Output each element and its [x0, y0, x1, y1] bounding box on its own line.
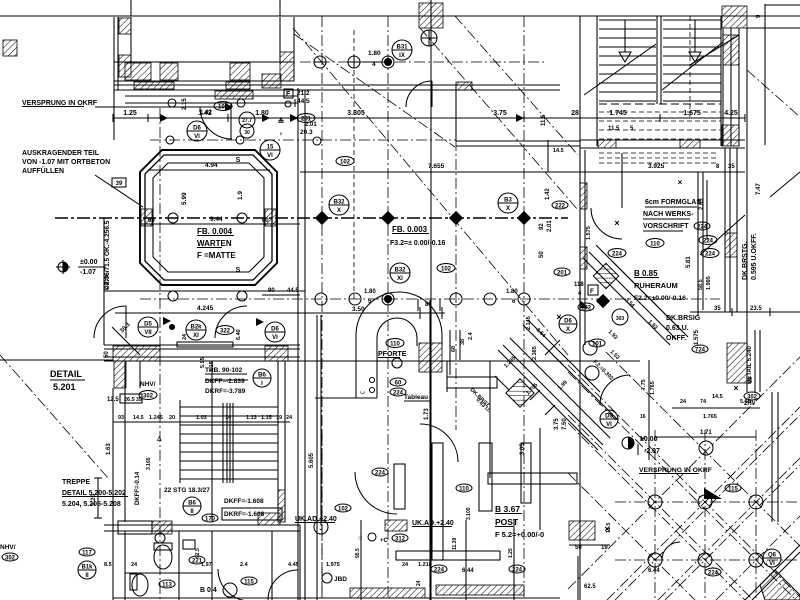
svg-text:1.218: 1.218	[418, 562, 432, 568]
svg-text:TREPPE: TREPPE	[62, 479, 90, 486]
tag Q6 VI	[763, 549, 781, 567]
treppe spine	[222, 403, 224, 483]
svg-text:UK.AD.+2.40: UK.AD.+2.40	[412, 520, 454, 527]
tag 224 oval c	[608, 249, 626, 258]
vertical line x305	[304, 90, 306, 600]
vertical x447	[446, 361, 448, 392]
svg-text:302: 302	[747, 394, 758, 400]
svg-text:35: 35	[714, 306, 721, 312]
door arc top corridor 1	[200, 107, 232, 139]
axis y218 markers	[315, 211, 329, 225]
svg-text:224: 224	[393, 390, 404, 396]
svg-text:B31: B31	[396, 45, 408, 51]
svg-text:DK.BRSTG.: DK.BRSTG.	[742, 241, 749, 280]
vertical axis x756 bottom right	[755, 430, 757, 600]
oval 201 left	[554, 268, 570, 276]
circle J bottom	[314, 520, 328, 534]
svg-text:110: 110	[459, 486, 469, 492]
vertical line x298	[297, 88, 299, 600]
bottom right bars	[521, 443, 531, 503]
svg-text:VI: VI	[194, 134, 200, 140]
svg-text:2.15: 2.15	[182, 98, 188, 110]
svg-text:1.42: 1.42	[545, 188, 551, 200]
arrow marker y118	[160, 114, 168, 122]
tableau bar	[447, 377, 497, 388]
stair right wall	[722, 28, 724, 146]
svg-text:118: 118	[574, 282, 584, 288]
svg-text:VI: VI	[769, 561, 775, 567]
tag V224	[694, 222, 710, 230]
svg-text:44.5: 44.5	[297, 98, 310, 105]
svg-text:3.165: 3.165	[146, 457, 152, 470]
svg-text:6.44: 6.44	[648, 568, 660, 574]
tag 110 oval b	[646, 239, 664, 248]
svg-text:5.201: 5.201	[53, 382, 76, 392]
tag 302 NHV right	[744, 392, 760, 400]
vertical axis x524	[523, 16, 525, 600]
treppe top wall	[104, 344, 300, 346]
svg-text:B3: B3	[504, 198, 512, 204]
svg-text:38: 38	[460, 339, 466, 345]
axis y140	[150, 139, 456, 141]
svg-text:7.47: 7.47	[756, 183, 762, 195]
svg-text:5.605: 5.605	[309, 452, 315, 468]
svg-text:3.75: 3.75	[493, 110, 507, 117]
horizontal axis y62	[300, 61, 545, 63]
stair arrow triangle 1	[619, 52, 631, 62]
svg-text:VI: VI	[606, 422, 612, 428]
svg-text:6cm FORMGLAS: 6cm FORMGLAS	[645, 199, 701, 206]
svg-text:VORSCHRIFT: VORSCHRIFT	[643, 223, 689, 230]
svg-text:1.63: 1.63	[106, 443, 112, 455]
svg-text:20: 20	[169, 415, 175, 421]
tag 102 oval center	[437, 264, 455, 273]
grid circle b	[348, 56, 360, 68]
corridor dim 4.245	[115, 312, 330, 314]
vertical axis x705 bottom right	[704, 430, 706, 600]
svg-text:50: 50	[539, 251, 545, 258]
bottom wall hatch b	[385, 520, 407, 531]
top-left room wall hatch bottom3	[230, 63, 250, 80]
diag hatch diamond 2	[593, 263, 618, 288]
svg-text:1.765: 1.765	[703, 414, 717, 420]
svg-text:62.5: 62.5	[584, 584, 596, 590]
svg-text:3.305: 3.305	[347, 110, 365, 117]
svg-text:1.42: 1.42	[200, 110, 212, 116]
svg-text:1.13: 1.13	[246, 415, 257, 421]
pforte circle glyph	[392, 358, 402, 368]
svg-text:X: X	[337, 208, 341, 214]
svg-text:102: 102	[338, 506, 349, 512]
svg-text:35: 35	[728, 164, 735, 170]
svg-text:302: 302	[5, 555, 16, 561]
lattice dims	[655, 436, 756, 438]
text F 21.2 44.5	[284, 89, 293, 98]
svg-text:60: 60	[395, 380, 402, 386]
elevation marker pm0.00 -1.07	[58, 262, 68, 272]
svg-text:AUFFÜLLEN: AUFFÜLLEN	[22, 166, 64, 175]
svg-text:110: 110	[390, 341, 400, 347]
tag B6 I	[253, 369, 271, 387]
vertical axis x388	[387, 16, 389, 600]
svg-text:±0.00: ±0.00	[80, 259, 98, 266]
diagonal axis left bottom	[0, 355, 108, 478]
tag 102 post	[335, 504, 351, 512]
vertical grid line x131 above building	[130, 0, 132, 16]
svg-text:JBD: JBD	[334, 576, 347, 583]
svg-text:1.575: 1.575	[694, 329, 700, 345]
corridor tag row	[138, 317, 158, 337]
svg-text:224: 224	[705, 251, 716, 257]
svg-text:B6: B6	[258, 373, 266, 379]
svg-text:20.3: 20.3	[300, 129, 313, 136]
vertical axis x322	[321, 16, 323, 600]
svg-text:F: F	[286, 91, 291, 98]
svg-text:224: 224	[612, 251, 623, 257]
tag 115 right	[725, 484, 741, 492]
octagon dim line y224	[140, 223, 300, 225]
svg-text:B 3.67: B 3.67	[495, 504, 520, 514]
svg-text:-1.07: -1.07	[80, 269, 96, 276]
svg-text:115: 115	[244, 579, 254, 585]
svg-text:1.765: 1.765	[650, 381, 656, 395]
tag 113 oval	[159, 580, 175, 588]
svg-text:F =MATTE: F =MATTE	[197, 251, 236, 260]
tag 115 oval	[241, 577, 257, 585]
tag 102 oval upper	[336, 157, 354, 166]
svg-text:30: 30	[244, 130, 250, 136]
pforte base	[315, 397, 377, 399]
svg-text:224: 224	[703, 238, 714, 244]
dim 120 vertical	[97, 478, 99, 518]
horizontal line y141 corridor	[456, 140, 580, 142]
svg-text:1.97: 1.97	[201, 562, 212, 568]
horizontal axis y560	[615, 559, 800, 561]
svg-text:×: ×	[733, 383, 738, 393]
boxed dim 39	[112, 178, 126, 187]
svg-text:D5: D5	[144, 322, 152, 328]
svg-text:VERSPRUNG IN OKRF: VERSPRUNG IN OKRF	[22, 100, 98, 107]
svg-text:224: 224	[375, 470, 386, 476]
svg-text:B32: B32	[394, 268, 406, 274]
top boundary line	[0, 15, 800, 17]
svg-text:WARTEN: WARTEN	[197, 239, 232, 248]
svg-text:II: II	[85, 573, 89, 579]
svg-text:22 STG 18.3/27: 22 STG 18.3/27	[164, 487, 210, 494]
pforte outer	[356, 292, 442, 398]
svg-text:303: 303	[616, 316, 625, 322]
tag 15 VI	[260, 140, 280, 160]
door arc bottom left	[218, 569, 250, 600]
tag B3 X	[498, 193, 518, 213]
svg-text:Tableau: Tableau	[404, 394, 428, 401]
vertical line x747	[746, 28, 748, 392]
svg-text:724: 724	[695, 347, 706, 353]
svg-text:24: 24	[680, 399, 687, 405]
svg-text:1.9: 1.9	[237, 191, 244, 200]
horizontal axis y299	[140, 298, 720, 300]
svg-text:14.5: 14.5	[133, 415, 144, 421]
vertical x540	[539, 428, 541, 530]
diagonal corridor horizontal base	[298, 360, 640, 362]
vertical line x430 low	[429, 300, 431, 600]
wall below stair	[580, 139, 745, 141]
svg-text:312: 312	[395, 536, 406, 542]
vertical line x580	[579, 16, 581, 600]
svg-text:1.80: 1.80	[364, 289, 376, 295]
tag 201 oval	[297, 114, 315, 123]
tag B6 II	[183, 497, 201, 515]
svg-text:2HV: 2HV	[744, 401, 756, 407]
svg-text:J: J	[319, 526, 322, 532]
svg-text:1.80: 1.80	[368, 50, 381, 57]
axis y299 circles	[315, 293, 327, 305]
svg-text:1.20: 1.20	[91, 494, 97, 506]
tag 224 d	[431, 565, 447, 573]
svg-text:14.5: 14.5	[553, 148, 564, 154]
top-left room wall hatch left	[119, 18, 131, 34]
treppe outer box	[124, 361, 126, 522]
pforte hatch block	[419, 343, 442, 372]
svg-text:2.4: 2.4	[240, 562, 249, 568]
svg-text:VERSPRUNG IN OKRF: VERSPRUNG IN OKRF	[639, 467, 712, 474]
svg-text:FB. 0.004: FB. 0.004	[197, 227, 233, 236]
svg-text:X: X	[506, 206, 510, 212]
treppe dim row y422	[113, 421, 290, 423]
svg-text:×: ×	[556, 312, 561, 322]
diag door arc	[600, 375, 630, 405]
top-left room lower band hatch	[134, 82, 174, 89]
svg-text:7.655: 7.655	[428, 163, 445, 170]
svg-text:224: 224	[708, 570, 719, 576]
tag B31 IX	[392, 40, 412, 60]
wall x580 vertical	[584, 150, 586, 345]
svg-text:201: 201	[557, 270, 568, 276]
tag 222 oval	[552, 201, 568, 209]
svg-text:VON -1.07 MIT ORTBETON: VON -1.07 MIT ORTBETON	[22, 159, 110, 166]
svg-text:14: 14	[640, 436, 646, 442]
corridor line below room	[300, 89, 560, 91]
svg-text:3.50: 3.50	[352, 306, 365, 313]
svg-text:NACH WERKS-: NACH WERKS-	[643, 211, 694, 218]
diagonal axis 2	[420, 28, 578, 210]
svg-text:322: 322	[220, 328, 231, 334]
svg-text:39: 39	[116, 181, 123, 187]
svg-text:19: 19	[276, 415, 282, 421]
svg-text:3.75: 3.75	[554, 418, 560, 430]
svg-text:74: 74	[700, 399, 707, 405]
dim row y312	[690, 311, 800, 313]
vertical axis x655 bottom right	[654, 430, 656, 600]
treppe right wall hatch	[278, 490, 285, 522]
stair arrow triangle 2	[689, 52, 701, 62]
svg-text:DKRF=-3.789: DKRF=-3.789	[205, 388, 246, 395]
svg-text:△: △	[156, 435, 162, 442]
svg-text:24: 24	[416, 580, 422, 586]
top-left room wall hatch bottom1	[125, 63, 151, 80]
svg-text:1.80: 1.80	[506, 289, 518, 295]
post column 2	[432, 443, 443, 560]
right wall lines x725-737	[724, 148, 726, 312]
diagonal axis 3	[455, 16, 578, 155]
vertical grid line x280 above building	[279, 0, 281, 16]
svg-text:FB. 0.003: FB. 0.003	[392, 225, 428, 234]
svg-text:1.71: 1.71	[700, 430, 712, 436]
svg-text:302: 302	[143, 393, 154, 399]
diag perp ticks	[530, 390, 540, 400]
svg-text:35: 35	[136, 397, 142, 403]
pforte inner	[377, 318, 417, 398]
svg-text:6.40: 6.40	[236, 329, 242, 340]
svg-text:4.94: 4.94	[205, 162, 218, 169]
svg-text:24: 24	[131, 562, 138, 568]
svg-text:1.73: 1.73	[424, 408, 430, 420]
svg-text:21.2: 21.2	[297, 90, 310, 97]
treads below stair wall	[599, 152, 718, 154]
svg-text:80: 80	[425, 302, 432, 308]
tag 110 oval c	[456, 484, 472, 492]
lattice triangle	[704, 488, 722, 499]
svg-text:S: S	[236, 267, 241, 274]
svg-text:224: 224	[434, 567, 445, 573]
svg-text:1.675: 1.675	[683, 110, 701, 117]
svg-text:○: ○	[358, 535, 362, 542]
arrow verspr	[225, 103, 233, 111]
svg-text:3.105: 3.105	[466, 507, 472, 520]
tiny arcs bottom	[662, 542, 680, 560]
svg-text:1.995: 1.995	[706, 276, 712, 290]
stair center rail	[656, 16, 658, 104]
svg-text:222: 222	[555, 203, 566, 209]
right vertical pair	[697, 172, 699, 310]
leader VERSPRUNG line	[95, 106, 230, 108]
bar mid bottom	[488, 473, 577, 484]
dim line y172	[300, 171, 745, 173]
svg-text:B 0.85: B 0.85	[634, 269, 658, 278]
corner hatch bottom right	[760, 570, 800, 600]
svg-text:19: 19	[601, 545, 608, 551]
tag D5 VI right	[600, 410, 618, 428]
svg-text:16: 16	[640, 414, 646, 420]
svg-text:7.50: 7.50	[562, 418, 568, 430]
svg-text:IX: IX	[399, 53, 405, 59]
svg-text:2.855: 2.855	[104, 274, 110, 290]
svg-text:1.745: 1.745	[609, 110, 627, 117]
svg-text:+C: +C	[380, 538, 389, 544]
svg-text:1.25: 1.25	[508, 548, 514, 558]
vertical axis x456	[455, 140, 457, 430]
svg-text:2.65: 2.65	[699, 198, 705, 210]
corridor door arc 2	[215, 306, 247, 338]
svg-text:D5: D5	[605, 414, 613, 420]
post column 3	[479, 443, 492, 511]
hatch block bottom left of lattice	[569, 521, 595, 540]
svg-text:Q6: Q6	[768, 553, 777, 559]
svg-text:VI: VI	[267, 153, 273, 159]
diag black diamond	[596, 294, 610, 308]
svg-text:24: 24	[286, 415, 293, 421]
svg-text:DKFF=-0.14: DKFF=-0.14	[135, 471, 141, 505]
svg-text:×: ×	[614, 218, 619, 228]
svg-text:115: 115	[728, 486, 738, 492]
svg-text:14.5: 14.5	[712, 394, 723, 400]
svg-text:B32: B32	[333, 200, 345, 206]
left wall bottom rooms	[112, 388, 114, 600]
door arc ruheraum	[591, 208, 622, 239]
svg-text:4.245: 4.245	[197, 305, 214, 312]
svg-text:D6: D6	[193, 126, 201, 132]
circle with cross below column	[421, 30, 437, 46]
svg-text:VII: VII	[144, 330, 152, 336]
svg-text:5.81: 5.81	[686, 256, 692, 268]
door arc bottom mid	[268, 570, 298, 600]
vertical line x765 top right	[764, 4, 766, 145]
svg-text:×: ×	[678, 178, 683, 187]
octagon axis circles	[168, 213, 178, 223]
svg-text:1.15: 1.15	[209, 361, 215, 372]
svg-text:X: X	[566, 327, 570, 333]
svg-text:201: 201	[301, 116, 312, 122]
svg-text:F 5.2=+0.00/-0: F 5.2=+0.00/-0	[495, 530, 544, 539]
post column 1	[394, 464, 405, 509]
svg-text:28: 28	[571, 110, 579, 117]
svg-text:F: F	[590, 288, 594, 295]
stair top-right outline	[596, 16, 598, 146]
svg-text:≙: ≙	[278, 117, 285, 126]
dim 9 top right	[765, 4, 800, 6]
diag lines right margin	[770, 172, 800, 197]
octagon bottom circles	[168, 291, 178, 301]
octagon room outer wall	[140, 150, 277, 285]
vertical axis x354	[353, 30, 355, 300]
svg-text:D6: D6	[271, 327, 279, 333]
grid circle a	[314, 56, 326, 68]
svg-text:2.145: 2.145	[526, 316, 532, 330]
svg-text:68: 68	[451, 346, 457, 352]
tag 303 circle	[612, 309, 628, 325]
svg-text:DKFF=-2.839: DKFF=-2.839	[205, 378, 245, 385]
left horizontal line	[0, 359, 113, 361]
interior walls bottom rooms	[178, 531, 180, 600]
svg-text:92.5: 92.5	[195, 548, 201, 558]
svg-text:50: 50	[575, 545, 582, 551]
svg-text:NHV/: NHV/	[140, 381, 156, 388]
svg-text:26.5: 26.5	[124, 397, 135, 403]
short diagonal 30.3 label	[112, 327, 140, 355]
svg-text:93: 93	[118, 415, 124, 421]
svg-text:VI: VI	[272, 335, 278, 341]
svg-text:4.45: 4.45	[288, 562, 299, 568]
door arc top corridor 2	[406, 81, 432, 107]
long counter bar	[396, 551, 500, 560]
grid dot c	[384, 58, 392, 66]
tag B32 X	[329, 195, 349, 215]
left small hatch block	[3, 40, 17, 56]
tag 102 diag	[578, 303, 594, 311]
tag V224 oval	[701, 249, 719, 258]
elevation marker bottom right	[622, 437, 634, 449]
svg-text:102: 102	[340, 159, 351, 165]
svg-text:24: 24	[402, 562, 409, 568]
treppe inner verticals	[179, 400, 181, 483]
octagon room inner wall	[153, 163, 264, 272]
svg-text:14: 14	[225, 415, 232, 421]
svg-text:AUSKRAGENDER TEIL: AUSKRAGENDER TEIL	[22, 150, 100, 157]
bottom hatch band	[350, 588, 425, 598]
svg-text:11.39: 11.39	[452, 538, 458, 550]
tag 724 oval	[692, 345, 708, 353]
svg-text:POST: POST	[495, 517, 519, 527]
